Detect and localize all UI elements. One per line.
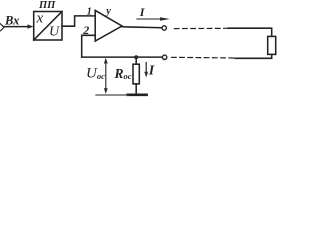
svg-text:у: у (104, 6, 111, 17)
svg-text:x: x (36, 10, 44, 26)
wire dashed bottom (172, 56, 236, 59)
wire block to op-amp input 1 (stepped) (62, 16, 95, 26)
svg-text:I: I (148, 64, 155, 79)
svg-text:I: I (139, 5, 146, 19)
resistor Rос (133, 57, 139, 94)
svg-text:U: U (49, 25, 60, 40)
wire bottom right from load (235, 54, 272, 58)
wire input with arrowhead (4, 24, 34, 28)
converter ПП (X/U block) (34, 12, 62, 41)
wire op-amp output (122, 26, 162, 29)
input terminal chevron (1, 24, 5, 31)
svg-text:Uос: Uос (86, 66, 105, 82)
ground bar (96, 94, 147, 97)
svg-text:Rос: Rос (114, 66, 132, 81)
dimension arrow Uос (104, 58, 108, 94)
svg-text:1: 1 (87, 6, 92, 17)
node junction at Rос (134, 55, 138, 59)
terminal output bottom (162, 55, 166, 59)
terminal output top (162, 26, 166, 30)
resistor load (268, 36, 276, 54)
wire feedback line (82, 56, 163, 58)
current arrow I output (137, 17, 170, 21)
op-amp У (95, 10, 122, 41)
current arrow I through Rос (144, 63, 148, 78)
svg-text:Вх: Вх (4, 14, 19, 28)
wire dashed top (174, 27, 227, 29)
wire top right to load (228, 28, 272, 36)
wire op-amp input 2 stub and riser (82, 35, 96, 57)
